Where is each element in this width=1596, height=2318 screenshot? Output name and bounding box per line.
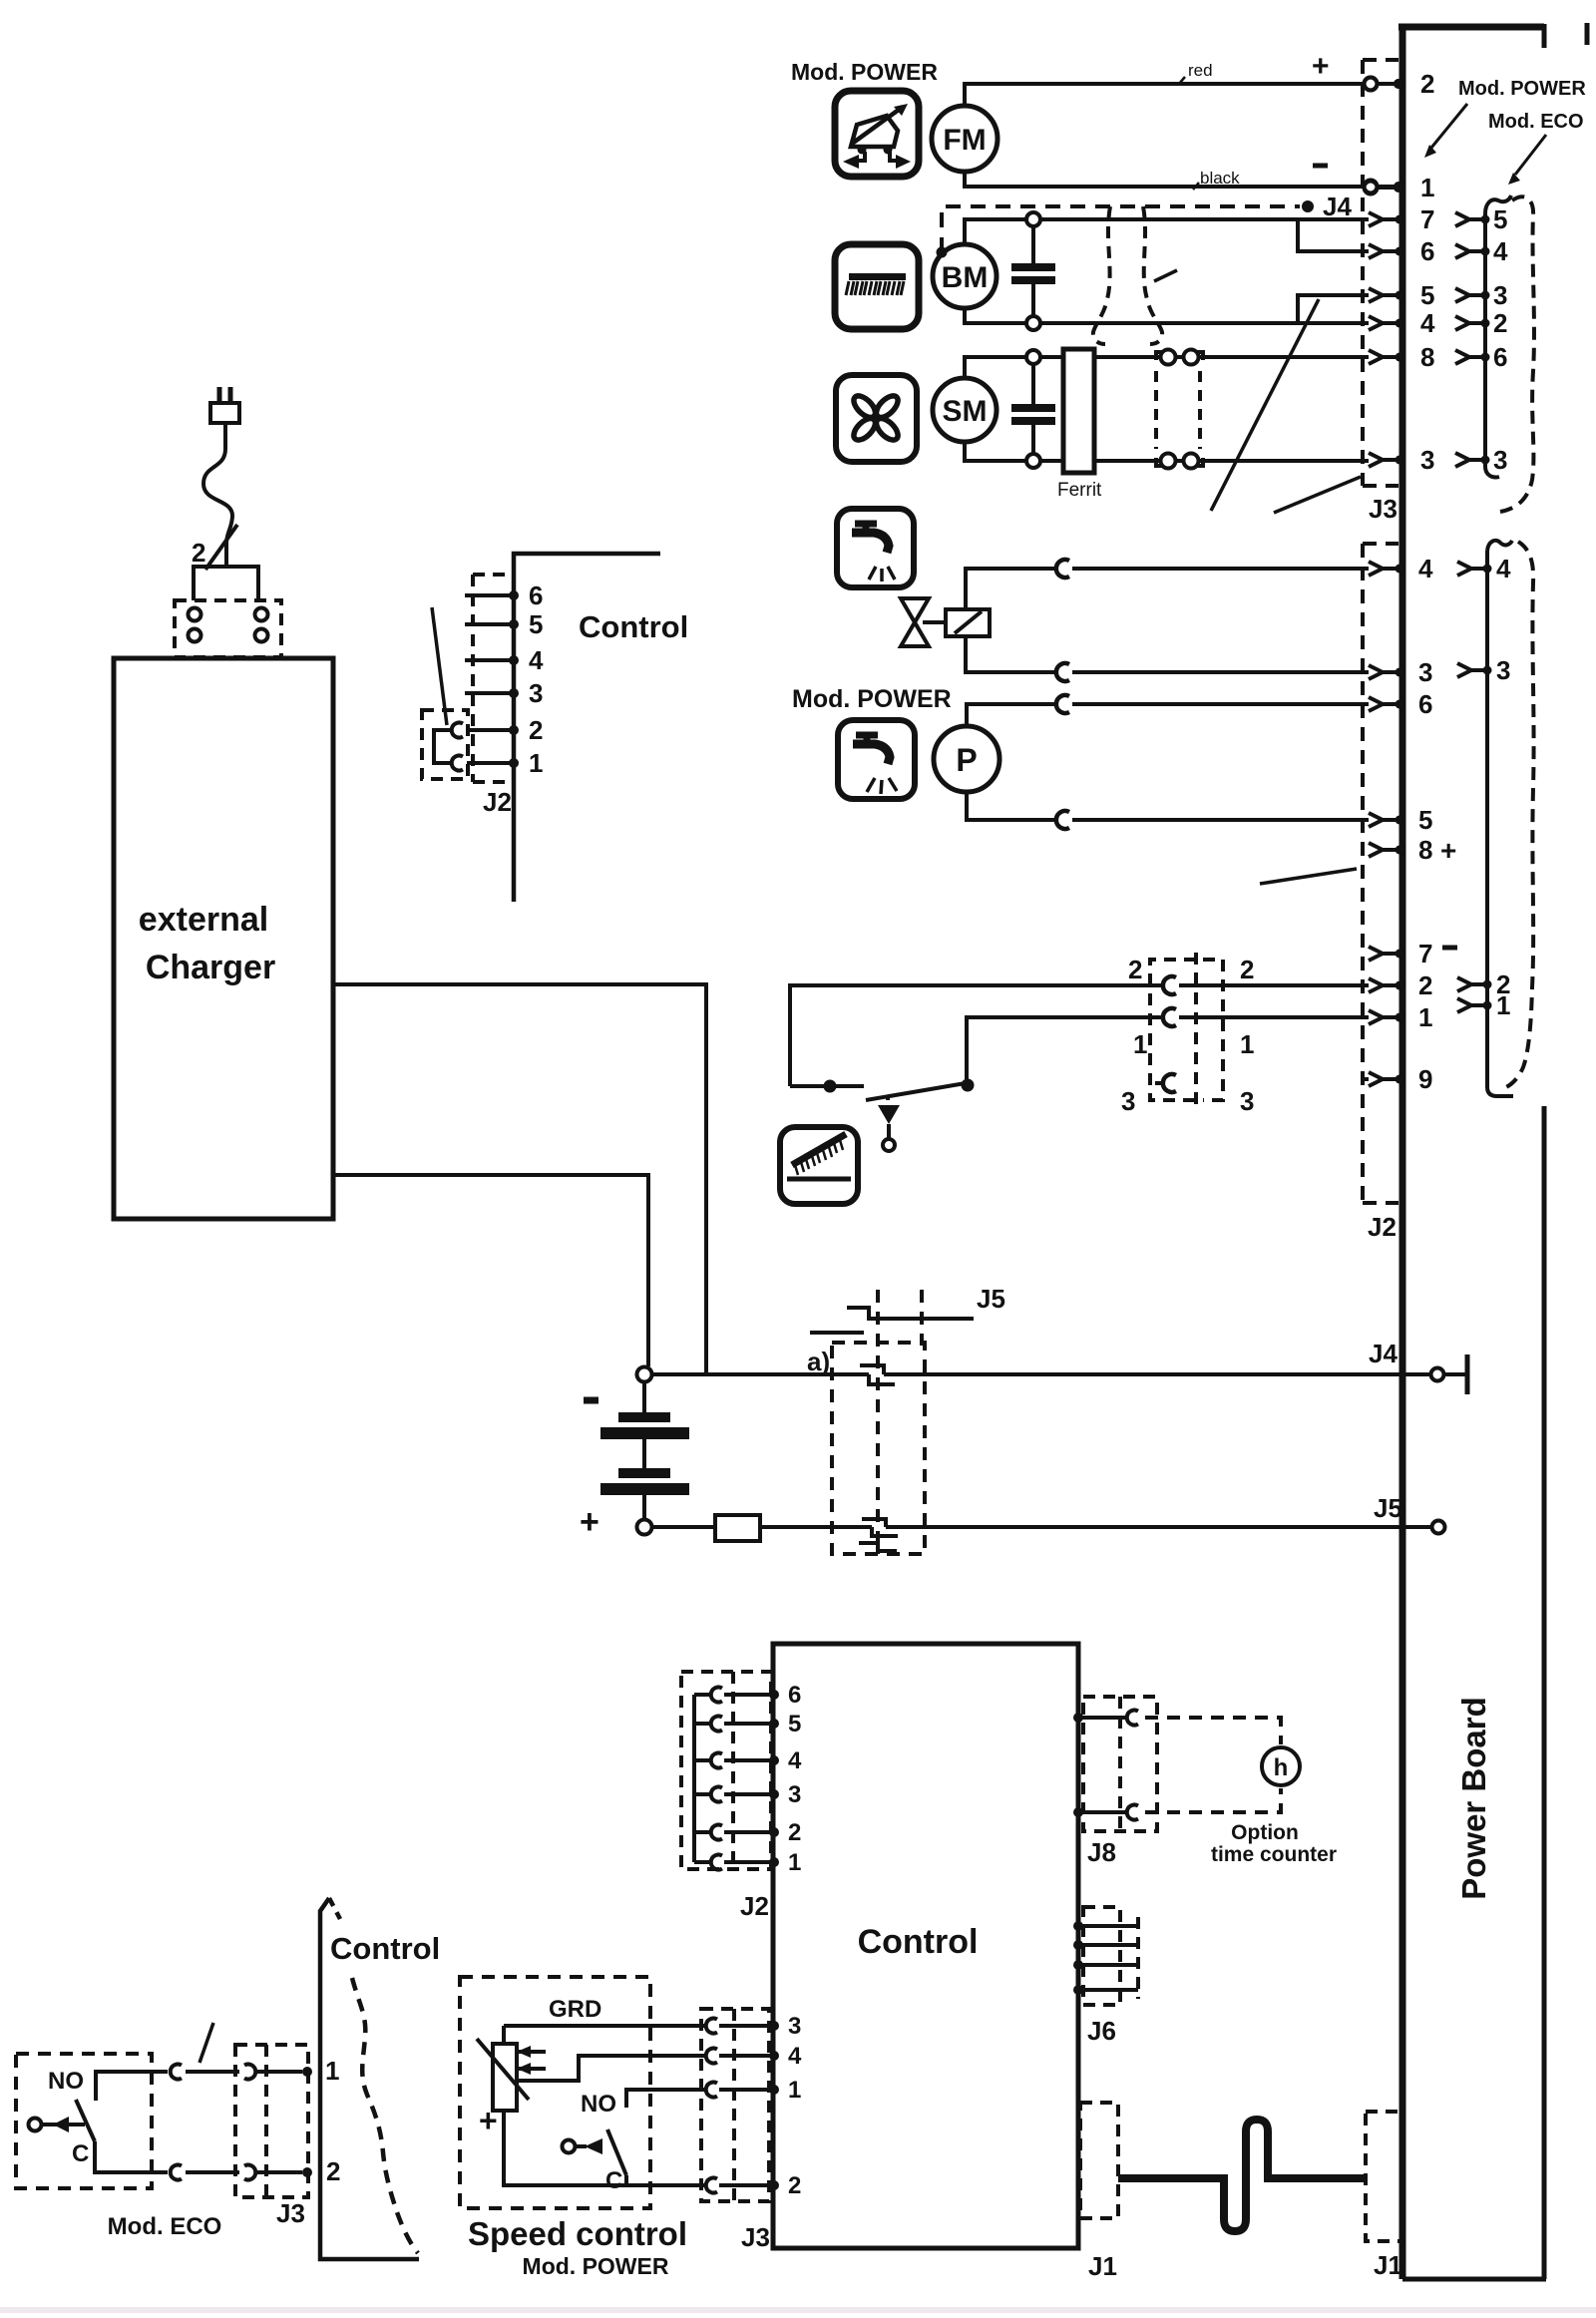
- svg-text:Mod. ECO: Mod. ECO: [108, 2213, 222, 2240]
- svg-text:black: black: [1200, 169, 1240, 188]
- svg-text:6: 6: [1420, 236, 1434, 266]
- svg-text:3: 3: [788, 1781, 801, 1808]
- svg-text:J6: J6: [1087, 2016, 1116, 2046]
- wire charger output 2: [333, 1175, 648, 1366]
- svg-text:1: 1: [1418, 1002, 1432, 1032]
- svg-text:NO: NO: [581, 2091, 616, 2118]
- arrow to Mod. ECO pins: [1508, 135, 1546, 185]
- fuse: [715, 1515, 760, 1541]
- svg-text:J4: J4: [1369, 1339, 1397, 1368]
- connector J1 control: [1080, 2103, 1118, 2218]
- control J3 connector housing: [701, 2009, 769, 2201]
- label minus at pin 7: [1442, 946, 1457, 951]
- connector J2 power board housing: [1363, 544, 1398, 1203]
- solenoid valve: [901, 598, 990, 646]
- contact J5 aux: [810, 1284, 1005, 1333]
- net J4 dashed from BM: [937, 192, 1353, 258]
- svg-text:4: 4: [788, 1747, 802, 1774]
- svg-text:4: 4: [1496, 554, 1511, 583]
- wire BM top to pin 7: [965, 219, 1369, 244]
- J3 pin 8 terminal: [1369, 342, 1434, 372]
- svg-text:J3: J3: [741, 2222, 770, 2252]
- wire SM top to pin 8: [965, 357, 1369, 378]
- brush pedal switch: [790, 1079, 975, 1152]
- wire FM plus (red): [965, 78, 1403, 107]
- wire pump to pin 5: [967, 792, 1369, 829]
- wire NO to pin1: [626, 2090, 704, 2108]
- svg-text:6: 6: [1493, 342, 1507, 372]
- svg-text:C: C: [72, 2140, 89, 2167]
- label J3 ECO: [276, 2198, 305, 2228]
- svg-text:Charger: Charger: [146, 949, 275, 986]
- svg-text:C: C: [605, 2167, 622, 2194]
- wire pump to pin 6: [967, 695, 1369, 726]
- svg-text:2: 2: [788, 2172, 801, 2199]
- svg-text:external: external: [139, 901, 268, 939]
- J3 pin 4 terminal: [1369, 308, 1435, 338]
- svg-text:Mod. POWER: Mod. POWER: [523, 2253, 669, 2279]
- svg-text:Speed control: Speed control: [468, 2215, 687, 2252]
- motor BM: [933, 244, 997, 308]
- drawer connector a) housing: [832, 1290, 925, 1554]
- svg-text:2: 2: [192, 538, 205, 568]
- lower harness pin 2: [1457, 969, 1510, 999]
- wire valve to pin 4: [966, 560, 1369, 609]
- Mod.ECO harness pin 3: [1455, 280, 1507, 310]
- control J3 pins: [706, 2013, 802, 2199]
- wire wiper to pin4: [518, 2056, 704, 2081]
- label Mod. POWER (top right): [1458, 78, 1586, 100]
- label Mod. POWER (middle): [792, 685, 952, 713]
- motor SM: [933, 378, 997, 442]
- svg-text:+: +: [479, 2103, 498, 2138]
- time counter h: [1262, 1747, 1300, 1785]
- svg-text:Option: Option: [1231, 1821, 1299, 1844]
- switch NO speed control: [563, 2091, 627, 2194]
- J3 pin 3 terminal: [1369, 445, 1434, 475]
- svg-text:8: 8: [1420, 342, 1434, 372]
- label Mod. ECO: [108, 2213, 222, 2240]
- svg-text:1: 1: [529, 748, 543, 778]
- svg-text:h: h: [1274, 1754, 1289, 1781]
- Mod.ECO harness cable outline: [1500, 196, 1534, 512]
- control outline (bottom left): [320, 1898, 440, 2259]
- svg-text:4: 4: [1418, 554, 1433, 583]
- connector J3 power board housing: [1363, 60, 1398, 486]
- svg-text:6: 6: [529, 580, 543, 610]
- icon fan (SM): [836, 375, 917, 462]
- J2 pin 5 terminal: [1369, 805, 1432, 835]
- svg-text:Mod. POWER: Mod. POWER: [791, 59, 938, 85]
- leader line to J2 plug: [432, 607, 447, 725]
- svg-text:3: 3: [1121, 1086, 1135, 1116]
- svg-text:BM: BM: [942, 261, 989, 294]
- svg-text:NO: NO: [48, 2068, 84, 2095]
- arrow to Mod. POWER pins: [1424, 104, 1467, 158]
- svg-text:J8: J8: [1087, 1837, 1116, 1867]
- lower harness cable outline: [1501, 542, 1534, 1089]
- svg-text:Power Board: Power Board: [1455, 1697, 1492, 1900]
- icon water tap 1: [837, 509, 914, 587]
- wire BM bottom to pin 4: [965, 308, 1369, 323]
- icon squeegee machine (FM): [835, 91, 919, 177]
- external charger box: [114, 658, 333, 1219]
- connector J6: [1073, 1907, 1138, 2005]
- svg-text:J3: J3: [276, 2198, 305, 2228]
- cable 2-conductor slash: [192, 525, 237, 570]
- speed control housing: [460, 1977, 650, 2208]
- svg-text:Mod. POWER: Mod. POWER: [792, 685, 952, 713]
- svg-text:1: 1: [788, 1849, 801, 1876]
- inline connector pin3 stub: [1155, 1074, 1176, 1092]
- svg-text:3: 3: [1496, 655, 1510, 685]
- J2 pin 1 terminal: [1369, 1002, 1432, 1032]
- svg-text:7: 7: [1420, 204, 1434, 234]
- shield tick: [1154, 270, 1177, 281]
- svg-text:2: 2: [1420, 69, 1434, 99]
- inline connector housing: [1150, 953, 1223, 1107]
- svg-text:6: 6: [1418, 689, 1432, 719]
- label J1 power board: [1374, 2250, 1402, 2280]
- capacitor SM: [1011, 350, 1055, 468]
- inline connector labels: [1121, 955, 1254, 1116]
- wire pot bottom to pin2: [504, 2111, 704, 2185]
- wire GRD to pin3: [504, 2024, 704, 2028]
- charger cable: [203, 423, 232, 567]
- svg-text:7: 7: [1418, 939, 1432, 968]
- svg-text:Mod. POWER: Mod. POWER: [1458, 78, 1586, 100]
- ECO J3 housing: [235, 2045, 308, 2197]
- potentiometer speed: [477, 2026, 546, 2138]
- svg-text:1: 1: [1420, 173, 1434, 202]
- J3 pin 5 terminal: [1369, 280, 1434, 310]
- svg-text:red: red: [1188, 61, 1213, 80]
- svg-text:J3: J3: [1369, 494, 1397, 524]
- label Speed control: [468, 2215, 687, 2252]
- wire jog to pin 5: [1298, 295, 1369, 323]
- wire battery plus / J5 net: [652, 1519, 1445, 1551]
- label Option time counter: [1211, 1821, 1337, 1866]
- switch Mod ECO: [29, 2068, 169, 2172]
- control board outline (top): [514, 554, 688, 902]
- leader line cable: [1211, 299, 1319, 511]
- wire jog to pin 6: [1298, 219, 1369, 251]
- label J2 control: [740, 1891, 769, 1921]
- label a): [807, 1347, 830, 1376]
- svg-text:5: 5: [529, 609, 543, 639]
- label Mod. POWER (top left): [791, 59, 938, 85]
- connector Mod.ECO harness (upper right): [1485, 195, 1511, 478]
- svg-text:GRD: GRD: [549, 1996, 601, 2023]
- J2 pin 3 terminal: [1369, 657, 1432, 687]
- mains plug: [210, 387, 239, 423]
- Mod.ECO harness pin 5: [1455, 204, 1507, 234]
- Mod.ECO harness pin 3: [1455, 445, 1507, 475]
- label J5 net: [1374, 1493, 1402, 1523]
- label Mod. POWER (speed control): [523, 2253, 669, 2279]
- svg-text:+: +: [1440, 835, 1456, 866]
- svg-text:J4: J4: [1323, 192, 1352, 221]
- J2 pin 8 terminal: [1369, 835, 1432, 865]
- label J6: [1087, 2016, 1116, 2046]
- svg-text:+: +: [1312, 50, 1330, 83]
- label J1 control: [1088, 2251, 1117, 2281]
- label GRD: [549, 1996, 601, 2023]
- wire battery minus / J4 net: [652, 1354, 1467, 1394]
- svg-text:2: 2: [1418, 970, 1432, 1000]
- charger inlet connector: [175, 567, 281, 657]
- label Power Board: [1455, 1697, 1492, 1900]
- svg-text:Control: Control: [579, 609, 688, 644]
- svg-text:2: 2: [529, 715, 543, 745]
- label plus: [1312, 50, 1330, 83]
- svg-text:1: 1: [1240, 1029, 1254, 1059]
- svg-text:8: 8: [1418, 835, 1432, 865]
- svg-text:1: 1: [788, 2077, 801, 2104]
- svg-text:J5: J5: [977, 1284, 1005, 1314]
- svg-text:3: 3: [1418, 657, 1432, 687]
- J3 pin 1 terminal: [1365, 173, 1435, 202]
- wire ECO C to control 2: [171, 2165, 312, 2180]
- svg-text:1: 1: [1133, 1029, 1147, 1059]
- label J4 net: [1369, 1339, 1397, 1368]
- connector Mod.ECO harness (lower right): [1487, 541, 1513, 1096]
- control J2 connector housing: [681, 1672, 771, 1869]
- leader tick ECO: [199, 2023, 213, 2063]
- label J3: [1369, 494, 1397, 524]
- svg-text:P: P: [956, 742, 977, 778]
- svg-text:2: 2: [326, 2156, 340, 2186]
- svg-text:5: 5: [788, 1711, 801, 1738]
- svg-text:9: 9: [1418, 1064, 1432, 1094]
- svg-text:Control: Control: [858, 1923, 979, 1961]
- wire SM bottom to pin 3: [965, 442, 1369, 461]
- svg-text:4: 4: [788, 2043, 802, 2070]
- svg-text:Mod. ECO: Mod. ECO: [1488, 111, 1584, 133]
- svg-text:4: 4: [1420, 308, 1435, 338]
- lower harness pin 1: [1457, 990, 1510, 1020]
- label J2 (top control): [483, 787, 512, 817]
- ferrite bead: [1057, 349, 1102, 501]
- svg-text:J2: J2: [483, 787, 512, 817]
- J2 pin 6 terminal: [1369, 689, 1432, 719]
- wire net pin2 long: [790, 976, 1369, 1086]
- wire FM minus (black): [965, 172, 1403, 193]
- label J8: [1087, 1837, 1116, 1867]
- label plus at pin 8: [1440, 835, 1456, 866]
- svg-text:3: 3: [788, 2013, 801, 2040]
- icon water tap 2: [838, 720, 915, 799]
- svg-text:2: 2: [1240, 955, 1254, 984]
- svg-text:1: 1: [1496, 990, 1510, 1020]
- wire valve to pin 3: [966, 636, 1369, 681]
- motor FM: [932, 106, 997, 172]
- J2 pin 7 terminal: [1369, 939, 1432, 968]
- svg-text:J1: J1: [1088, 2251, 1117, 2281]
- svg-text:a): a): [807, 1347, 830, 1376]
- J2 pin 2 terminal: [1369, 970, 1432, 1000]
- svg-text:SM: SM: [943, 395, 988, 428]
- svg-text:5: 5: [1418, 805, 1432, 835]
- svg-text:J1: J1: [1374, 2250, 1402, 2280]
- svg-text:1: 1: [325, 2056, 339, 2086]
- connector J1 power board: [1366, 2112, 1402, 2241]
- label J2 power board: [1368, 1212, 1396, 1242]
- wire to time counter: [1145, 1718, 1281, 1812]
- Mod.ECO harness pin 6: [1455, 342, 1507, 372]
- leader line to J3: [1274, 477, 1361, 513]
- svg-text:3: 3: [1420, 445, 1434, 475]
- Mod.ECO harness pin 4: [1455, 236, 1508, 266]
- SM inline connector: [1156, 350, 1203, 469]
- svg-text:time counter: time counter: [1211, 1843, 1337, 1866]
- wire ECO NO to control 1: [171, 2065, 312, 2080]
- J3 pin 6 terminal: [1369, 236, 1434, 266]
- label J3 control: [741, 2222, 770, 2252]
- J2 pin 9 stub: [1363, 1077, 1369, 1081]
- svg-text:3: 3: [529, 678, 543, 708]
- wire charger output 1: [333, 984, 706, 1374]
- svg-text:FM: FM: [943, 124, 986, 157]
- J3 pin 2 terminal: [1365, 69, 1435, 99]
- Mod.ECO harness pin 2: [1455, 308, 1507, 338]
- control box: [773, 1644, 1078, 2248]
- label minus: [1313, 164, 1328, 169]
- J3 pin 7 terminal: [1369, 204, 1434, 234]
- label Mod. ECO (top right): [1488, 111, 1584, 133]
- svg-text:3: 3: [1493, 445, 1507, 475]
- label red: [1179, 61, 1213, 84]
- icon brush (BM): [835, 244, 919, 329]
- svg-text:4: 4: [1493, 236, 1508, 266]
- pump P: [934, 726, 999, 792]
- J2 pin 9 terminal: [1369, 1064, 1432, 1094]
- svg-text:J2: J2: [1368, 1212, 1396, 1242]
- battery: [580, 1367, 689, 1542]
- svg-text:2: 2: [1128, 955, 1142, 984]
- svg-text:5: 5: [1493, 204, 1507, 234]
- svg-text:Control: Control: [330, 1931, 440, 1966]
- cable shield sleeve (BM): [1093, 206, 1162, 344]
- connector J8: [1073, 1697, 1157, 1831]
- svg-text:J5: J5: [1374, 1493, 1402, 1523]
- control J2 pins: [694, 1682, 802, 1876]
- ribbon cable J1: [1118, 2120, 1366, 2231]
- J2 pin 4 terminal: [1369, 554, 1433, 583]
- Mod ECO switch housing: [16, 2054, 152, 2188]
- control J2 connector (top): [422, 575, 544, 782]
- svg-text:Ferrit: Ferrit: [1057, 480, 1102, 501]
- svg-text:5: 5: [1420, 280, 1434, 310]
- svg-text:J2: J2: [740, 1891, 769, 1921]
- lower harness pin 3: [1457, 655, 1510, 685]
- power board outline: [1398, 23, 1587, 2279]
- svg-text:3: 3: [1240, 1086, 1254, 1116]
- svg-text:+: +: [580, 1503, 599, 1541]
- svg-text:4: 4: [529, 645, 544, 675]
- svg-text:3: 3: [1493, 280, 1507, 310]
- svg-text:2: 2: [788, 1819, 801, 1846]
- capacitor BM: [1011, 212, 1055, 330]
- leader line to J2: [1260, 869, 1357, 884]
- svg-text:2: 2: [1493, 308, 1507, 338]
- lower harness pin 4: [1457, 554, 1511, 583]
- label black: [1193, 169, 1240, 190]
- wire net pin1: [967, 1008, 1369, 1079]
- svg-text:6: 6: [788, 1682, 801, 1709]
- icon brush pedal: [780, 1127, 858, 1204]
